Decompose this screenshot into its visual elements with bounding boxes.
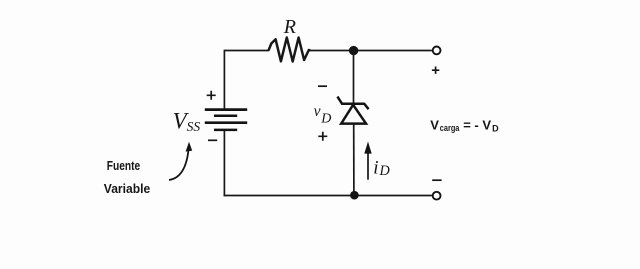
svg-text:Vcarga= - VD: Vcarga= - VD <box>430 118 499 134</box>
label - (battery) <box>208 139 217 141</box>
wire: left vertical lower <box>223 131 225 197</box>
wire: zener branch lower <box>353 124 355 196</box>
svg-text:R: R <box>283 16 296 38</box>
battery VSS: plate short bottom <box>214 129 237 132</box>
svg-text:VSS: VSS <box>173 109 201 135</box>
arrow iD vertical <box>367 151 369 180</box>
curved arrow (fuente variable) <box>169 151 188 180</box>
terminal: bottom output circle <box>433 192 441 200</box>
wire: left vertical upper <box>223 50 225 110</box>
svg-text:vD: vD <box>314 103 332 127</box>
wire: zener branch upper <box>353 51 355 104</box>
wire: bottom horizontal <box>224 195 432 197</box>
svg-text:iD: iD <box>373 157 390 179</box>
battery VSS: plate short 1 <box>214 114 237 117</box>
terminal: top output circle <box>433 47 441 55</box>
zener diode D: cathode bar <box>337 97 368 110</box>
battery VSS: plate long 2 <box>205 121 247 124</box>
label + (top terminal) <box>432 67 439 74</box>
resistor R zigzag <box>269 38 311 62</box>
label - (bottom terminal) <box>432 179 441 181</box>
svg-text:Variable: Variable <box>104 181 150 196</box>
node: top junction dot <box>349 46 358 55</box>
wire: top left horizontal <box>224 50 269 52</box>
wire: top right horizontal <box>310 50 432 52</box>
label - (above vD) <box>318 85 327 87</box>
zener diode D: triangle <box>341 105 366 124</box>
node: bottom junction dot <box>350 191 359 200</box>
arrowhead iD <box>364 142 371 154</box>
svg-text:Fuente: Fuente <box>107 159 140 173</box>
label + (battery) <box>207 91 216 100</box>
label + (below vD) <box>318 132 327 141</box>
battery VSS: plate long top <box>205 108 247 111</box>
arrowhead (curved arrow) <box>186 142 193 152</box>
